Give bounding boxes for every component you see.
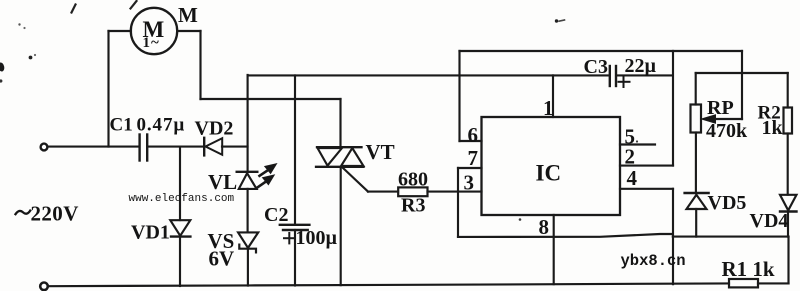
svg-text:1k: 1k (762, 117, 784, 139)
wire: top terminal to C1 (48, 146, 139, 148)
svg-text:VD1: VD1 (131, 222, 170, 244)
svg-text:680: 680 (398, 168, 428, 190)
svg-text:C1: C1 (110, 114, 133, 135)
svg-text:RP: RP (707, 97, 734, 119)
wire: right corner up to bottom rail (787, 237, 789, 284)
svg-text:C2: C2 (264, 204, 288, 226)
scan small mark left edge (0, 79, 2, 82)
wire: VD2 to node A (222, 146, 248, 148)
pin 4 wire (620, 188, 673, 190)
horizontal line y75: node A to C3 (248, 74, 608, 76)
scan dash mark 2 (131, 1, 137, 9)
svg-text:7: 7 (468, 146, 479, 170)
node A vertical: VD2 node down through VL, VS to bottom (247, 75, 249, 172)
pin 5 stub (620, 143, 655, 145)
wire: motor left horizontal (109, 30, 132, 32)
capacitor C3 (610, 66, 616, 86)
wire: motor right horizontal (177, 30, 200, 32)
C3 plus sign (619, 81, 630, 83)
wire: R2 bottom to VD4 (787, 134, 789, 195)
potentiometer RP body (691, 105, 702, 133)
diode VD1 (179, 147, 181, 220)
scan speck dots upper (18, 23, 20, 25)
svg-text:M: M (178, 3, 198, 27)
top rail y51 (460, 50, 743, 52)
svg-text:8: 8 (539, 215, 550, 239)
wire: VT bottom to bottom rail (340, 167, 342, 285)
capacitor C1 (140, 135, 148, 161)
svg-text:3: 3 (464, 171, 475, 195)
terminal top-left (41, 144, 48, 151)
wire: R1 to right corner (758, 282, 789, 284)
svg-text:VD5: VD5 (708, 192, 747, 214)
svg-text:100µ: 100µ (296, 227, 338, 249)
capacitor C2 branch wire (294, 75, 296, 224)
RP wiper arrow (702, 115, 743, 123)
wire: top rail down to RP wiper (741, 51, 743, 119)
diode VD5 (685, 193, 709, 209)
wire: C1 to VD2 (148, 146, 204, 148)
svg-text:ybx8.cn: ybx8.cn (621, 252, 686, 270)
svg-text:R3: R3 (401, 195, 425, 217)
pin 8 wire (553, 215, 555, 284)
scan speck below IC (519, 218, 522, 221)
svg-text:C3: C3 (584, 56, 608, 78)
wire: upper horizontal to VT branch (201, 98, 341, 100)
scan speck dot mid (29, 56, 33, 60)
resistor R1 body (729, 279, 758, 287)
bottom wire (48, 283, 729, 286)
label ~220V (16, 211, 31, 215)
wire: RP top to rail y73 (695, 73, 697, 105)
zener VS (238, 232, 258, 252)
pin 2 wire (620, 165, 673, 167)
pin 7 wire (458, 167, 482, 169)
motor M circle (131, 8, 177, 54)
terminal bottom-left (40, 283, 48, 291)
svg-text:220V: 220V (31, 202, 79, 226)
wire: pin7 vertical down to bottom rail (457, 168, 459, 237)
motor M lead right (vertical) (199, 31, 201, 99)
wire: down to VT top (339, 99, 341, 147)
wire: RP bottom to VD5 (695, 133, 697, 194)
bottom rail (pins 7/8 net) (458, 234, 673, 237)
wire: gate to R3 (368, 191, 398, 193)
resistor R3 (398, 187, 427, 196)
svg-text:R1 1k: R1 1k (722, 257, 775, 281)
wire: VT gate diagonal (343, 168, 368, 192)
wire: VD5 to bottom rail (695, 209, 697, 237)
wire: R2 top (787, 73, 789, 108)
scan comma mark left edge (0, 62, 5, 72)
wire: VS to bottom wire (247, 249, 249, 286)
svg-text:VD2: VD2 (195, 118, 234, 140)
svg-text:470k: 470k (706, 120, 748, 142)
svg-text:0.47µ: 0.47µ (137, 114, 186, 135)
wire: pin 4 down to bottom wire (672, 189, 674, 284)
LED VL light arrows (258, 164, 277, 187)
diode VD2 (204, 138, 222, 156)
svg-text:1~: 1~ (143, 35, 160, 51)
svg-text:2: 2 (625, 144, 636, 168)
scan dot after pin 5 (636, 140, 638, 142)
svg-text:VT: VT (366, 140, 395, 164)
wire: VD4 to bottom rail (787, 212, 789, 237)
wire: vertical top rail to pin 2 (672, 51, 674, 166)
motor M lead left (vertical) (107, 31, 109, 147)
wire: VD1 to bottom wire (179, 237, 181, 286)
wire: C3 to vertical x673 (618, 74, 673, 76)
svg-text:www.elecfans.com: www.elecfans.com (129, 193, 235, 205)
svg-text:1: 1 (543, 96, 554, 120)
wire: left vertical top rail to pin 6 (458, 51, 460, 141)
svg-text:IC: IC (536, 160, 562, 185)
wire: C2 to bottom wire (294, 230, 296, 286)
scan squiggle top middle (555, 19, 558, 22)
resistor R2 body (784, 108, 793, 134)
wire: VL to VS (247, 189, 249, 233)
svg-text:VD4: VD4 (750, 210, 789, 232)
scan dash mark 1 (72, 5, 76, 13)
svg-text:6V: 6V (209, 247, 235, 271)
triac VT (316, 147, 364, 167)
svg-text:6: 6 (468, 123, 479, 147)
svg-text:22µ: 22µ (625, 55, 657, 77)
wire: R3 to IC pin3 (428, 191, 482, 193)
IC U1 box (482, 117, 621, 215)
LED VL (237, 172, 258, 189)
svg-text:VL: VL (208, 170, 237, 194)
svg-text:4: 4 (627, 166, 638, 190)
rail y73 RP to R2 (696, 72, 788, 74)
pin 1 wire (552, 75, 554, 117)
capacitor C2 (280, 225, 310, 244)
diode VD4 (780, 195, 797, 212)
pin 6 wire (460, 140, 482, 142)
